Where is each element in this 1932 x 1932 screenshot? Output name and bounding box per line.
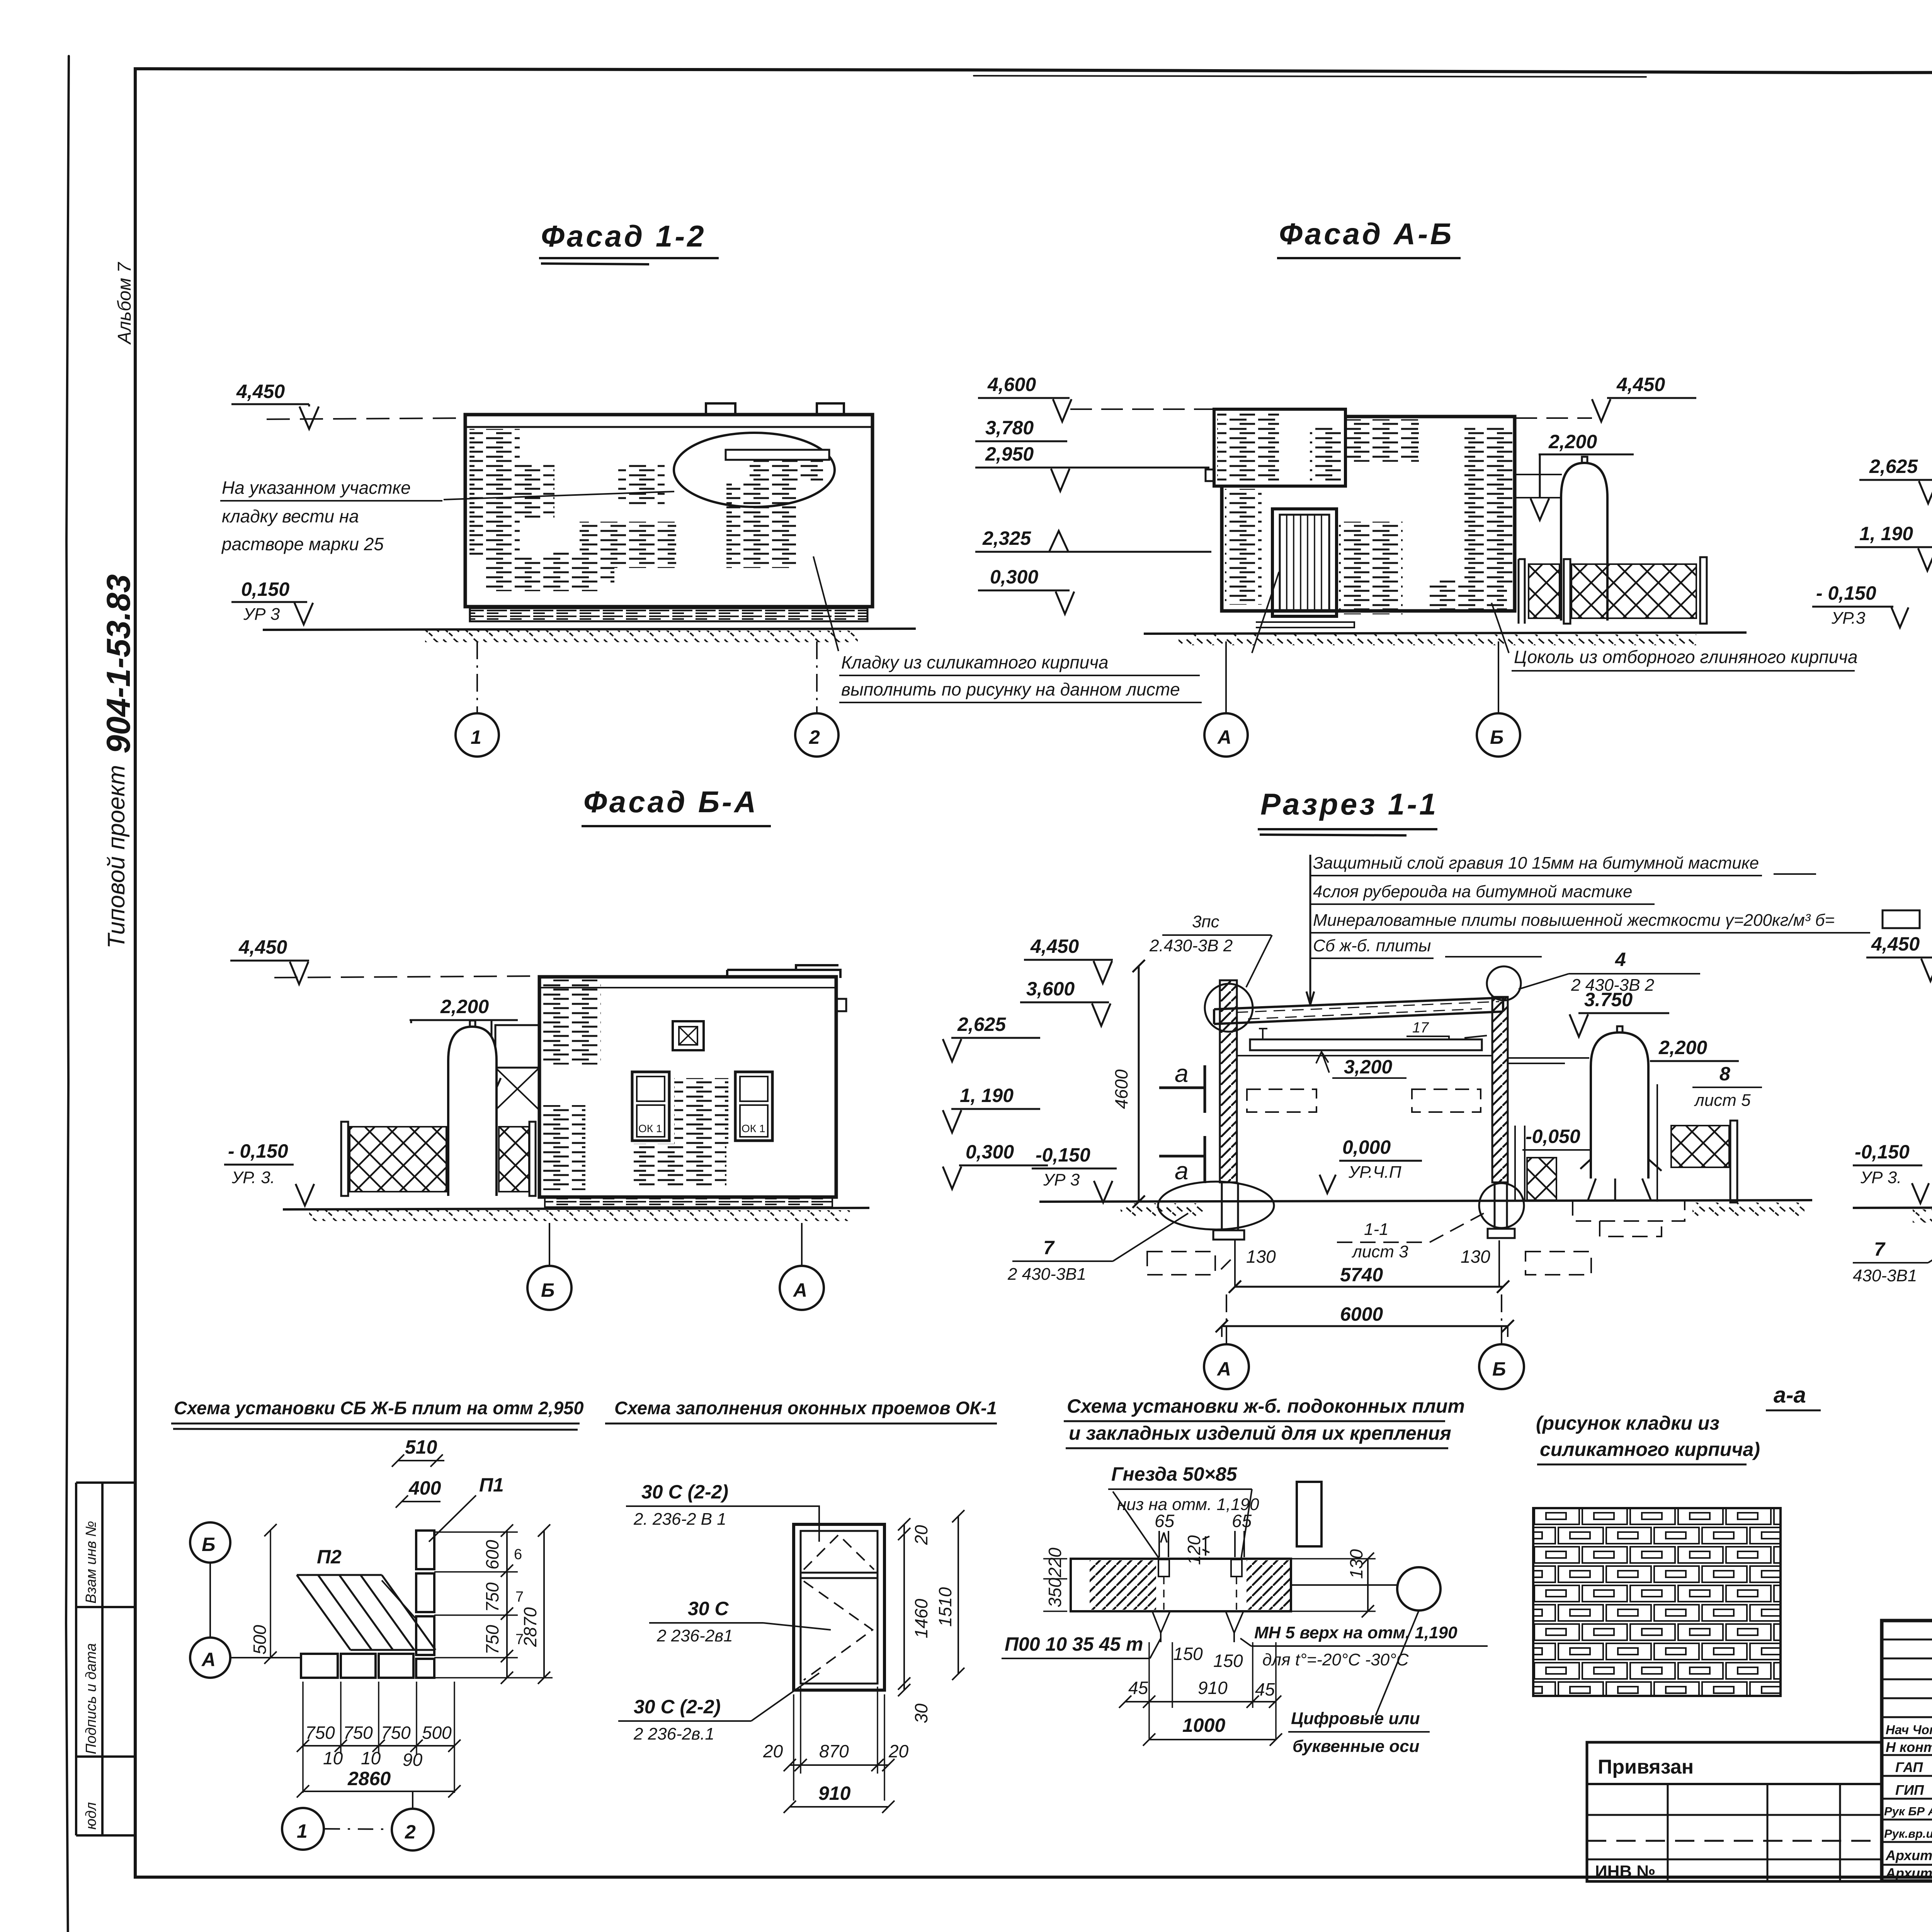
svg-text:2: 2: [405, 1821, 416, 1843]
dim 5740: [1235, 1286, 1503, 1288]
svg-text:МН 5 верх на отм. 1,190: МН 5 верх на отм. 1,190: [1254, 1623, 1458, 1642]
svg-text:ГАП: ГАП: [1895, 1759, 1923, 1775]
crane beam: [1250, 1039, 1482, 1050]
svg-text:- 0,150: - 0,150: [1816, 582, 1876, 604]
ceiling line: [1237, 1055, 1492, 1056]
fence right: [1656, 1084, 1658, 1202]
soil patches: [1121, 1203, 1206, 1217]
axis circle 1 (scheme): [282, 1808, 324, 1850]
ground line: [1144, 633, 1747, 634]
svg-text:УР. 3.: УР. 3.: [231, 1168, 275, 1187]
plate row horizontal: [301, 1654, 338, 1678]
brick shading between windows: [674, 1078, 728, 1144]
svg-text:65: 65: [1155, 1511, 1175, 1531]
axis circle B: [527, 1266, 571, 1310]
left column below ground: [1222, 1182, 1238, 1230]
margin stamp boxes: [76, 1483, 135, 1835]
roles and names: [1884, 1721, 1932, 1881]
window outer frame: [794, 1524, 884, 1690]
axis line B: [1498, 641, 1499, 713]
svg-text:1, 190: 1, 190: [1859, 523, 1913, 544]
svg-text:600: 600: [482, 1540, 502, 1570]
axis circle Б (scheme): [190, 1522, 230, 1563]
brick shading left wall: [1225, 489, 1262, 605]
svg-text:30 С (2-2): 30 С (2-2): [641, 1481, 728, 1503]
svg-text:Фасад Б-А: Фасад Б-А: [583, 785, 758, 819]
svg-text:УР 3: УР 3: [243, 605, 280, 624]
pipes right of column: [1508, 1058, 1589, 1063]
svg-text:выполнить по рисунку на данном: выполнить по рисунку на данном листе: [841, 679, 1180, 699]
svg-text:(рисунок кладки из: (рисунок кладки из: [1536, 1412, 1719, 1434]
svg-text:и закладных изделий для их кре: и закладных изделий для их крепления: [1069, 1422, 1451, 1444]
brick shading right edge: [1464, 425, 1514, 587]
svg-text:1000: 1000: [1182, 1714, 1225, 1736]
paper left edge: [66, 56, 69, 1932]
bottom dim 20/870/20: [790, 1764, 888, 1766]
svg-text:350: 350: [1045, 1578, 1065, 1607]
svg-text:30 С: 30 С: [688, 1598, 729, 1619]
leader to note: [444, 492, 674, 500]
axis circle 2: [795, 713, 838, 757]
spec leader vertical: [1306, 855, 1314, 1005]
anchor V left: [1152, 1611, 1170, 1642]
svg-text:0,150: 0,150: [241, 578, 289, 600]
svg-text:Кладку из силикатного кирпича: Кладку из силикатного кирпича: [841, 652, 1109, 672]
svg-text:Схема заполнения оконных проем: Схема заполнения оконных проемов ОК-1: [614, 1398, 997, 1418]
dashed footing right: [1526, 1252, 1591, 1275]
left dims 220/350: [1043, 1559, 1067, 1611]
svg-text:10: 10: [323, 1748, 343, 1768]
svg-text:904-1-53.83: 904-1-53.83: [100, 574, 137, 753]
svg-text:430-3В1: 430-3В1: [1853, 1266, 1917, 1285]
right column below ground: [1495, 1182, 1507, 1229]
svg-text:кладку вести на: кладку вести на: [222, 506, 359, 526]
axis circle B: [1479, 1344, 1524, 1389]
svg-text:400: 400: [408, 1477, 441, 1499]
sockets: [1158, 1560, 1169, 1577]
svg-text:4,600: 4,600: [987, 374, 1036, 395]
svg-text:Рук.вр.инж: Рук.вр.инж: [1884, 1827, 1932, 1840]
section mark a (lower): [1159, 1136, 1205, 1183]
overall 1510: [957, 1516, 959, 1674]
plate stack vertical: [416, 1531, 434, 1569]
svg-text:1460: 1460: [911, 1599, 931, 1638]
svg-text:4,450: 4,450: [238, 936, 287, 958]
overall 2870: [543, 1531, 545, 1678]
svg-text:А: А: [1217, 726, 1231, 748]
svg-text:2,200: 2,200: [1548, 431, 1597, 452]
svg-text:2,625: 2,625: [957, 1014, 1006, 1035]
sill plate plan: [1071, 1559, 1291, 1611]
svg-text:500: 500: [422, 1723, 452, 1743]
lintel bar: [726, 450, 829, 460]
svg-text:65: 65: [1232, 1511, 1252, 1531]
axis circle B: [1477, 713, 1520, 757]
brick masonry panel: [1533, 1508, 1781, 1696]
svg-text:4,450: 4,450: [1616, 374, 1665, 395]
axis line B: [1501, 1294, 1502, 1344]
soil patches: [1913, 1209, 1932, 1223]
axis line A: [1225, 641, 1227, 713]
left column (axis A): [1220, 980, 1237, 1182]
svg-text:2,625: 2,625: [1869, 456, 1918, 477]
svg-text:0,300: 0,300: [966, 1141, 1014, 1163]
svg-text:10: 10: [361, 1748, 381, 1768]
svg-text:3пс: 3пс: [1192, 912, 1219, 931]
plinth leader right: [1492, 603, 1509, 653]
svg-text:910: 910: [1198, 1678, 1228, 1698]
dashed opening right: [1412, 1089, 1481, 1112]
svg-text:1-1: 1-1: [1364, 1220, 1389, 1239]
duct near right column: [1515, 1126, 1525, 1202]
svg-text:ОК 1: ОК 1: [638, 1122, 662, 1134]
roof parapet strip right: [727, 965, 840, 978]
svg-text:0,300: 0,300: [990, 566, 1038, 588]
plinth leader left: [1252, 572, 1279, 653]
svg-text:а-а: а-а: [1774, 1383, 1806, 1408]
svg-text:Фасад 1-2: Фасад 1-2: [541, 219, 706, 253]
dashed opening left: [1247, 1089, 1316, 1112]
svg-text:20: 20: [888, 1741, 909, 1761]
svg-text:3.750: 3.750: [1584, 989, 1633, 1010]
svg-text:3,780: 3,780: [985, 417, 1034, 439]
svg-text:Н контр: Н контр: [1886, 1739, 1932, 1755]
svg-text:лист 5: лист 5: [1694, 1091, 1751, 1110]
ground line: [1853, 1206, 1932, 1208]
title block outer: [1882, 1621, 1932, 1881]
anchor V right: [1226, 1611, 1243, 1642]
svg-text:Подпись и дата: Подпись и дата: [83, 1643, 99, 1754]
right dim chain: [506, 1531, 508, 1678]
svg-text:Схема установки ж-б. подоконны: Схема установки ж-б. подоконных плит: [1067, 1395, 1465, 1417]
door: [1272, 509, 1337, 616]
svg-text:Архит.: Архит.: [1885, 1865, 1932, 1881]
svg-text:На указанном участке: На указанном участке: [222, 478, 411, 498]
svg-text:Типовой проект: Типовой проект: [103, 765, 130, 949]
svg-text:5740: 5740: [1340, 1264, 1383, 1286]
svg-text:120: 120: [1184, 1535, 1204, 1565]
svg-text:2: 2: [809, 726, 820, 748]
ground line: [1039, 1200, 1812, 1202]
svg-text:4,450: 4,450: [1871, 933, 1920, 955]
svg-text:750: 750: [343, 1723, 373, 1743]
svg-text:2 430-3В1: 2 430-3В1: [1007, 1265, 1086, 1284]
svg-text:150: 150: [1173, 1644, 1203, 1664]
square vent with X: [673, 1021, 704, 1050]
svg-text:Архит.: Архит.: [1885, 1847, 1932, 1863]
svg-text:2,200: 2,200: [440, 996, 489, 1017]
axis circle А (scheme): [190, 1638, 230, 1678]
svg-text:А: А: [793, 1279, 807, 1301]
svg-text:500: 500: [250, 1625, 270, 1655]
svg-text:растворе марки 25: растворе марки 25: [221, 534, 384, 554]
window 2: [735, 1072, 772, 1141]
window transom: [801, 1573, 878, 1578]
door step: [1256, 622, 1354, 628]
svg-text:Привязан: Привязан: [1598, 1756, 1694, 1778]
svg-text:7: 7: [1874, 1238, 1886, 1260]
svg-text:ОК 1: ОК 1: [742, 1122, 765, 1134]
brick shading on raised block: [1217, 412, 1279, 483]
svg-text:750: 750: [381, 1723, 411, 1743]
axis circle 2 (scheme): [392, 1809, 434, 1850]
svg-text:30: 30: [911, 1703, 931, 1723]
svg-text:2 236-2в1: 2 236-2в1: [656, 1626, 733, 1645]
svg-text:20: 20: [763, 1741, 783, 1761]
axis line 2: [816, 641, 818, 713]
roof parapet blocks: [706, 403, 735, 415]
dim 6000: [1222, 1325, 1508, 1327]
dim 2860: [303, 1791, 454, 1792]
svg-text:2.430-3В 2: 2.430-3В 2: [1149, 936, 1233, 955]
svg-text:2. 236-2 В 1: 2. 236-2 В 1: [633, 1510, 726, 1529]
duct between tank and building: [495, 1025, 539, 1068]
svg-text:150: 150: [1213, 1651, 1243, 1671]
axis circle A: [780, 1266, 824, 1310]
brick shading left top: [543, 980, 601, 1065]
leader to brick note: [813, 556, 838, 651]
axis dash link: [325, 1829, 391, 1829]
svg-text:220: 220: [1045, 1548, 1065, 1578]
svg-text:1, 190: 1, 190: [960, 1085, 1014, 1106]
svg-text:-0,150: -0,150: [1855, 1141, 1910, 1163]
left foot oval callout: [1158, 1182, 1274, 1230]
svg-text:А: А: [201, 1649, 216, 1670]
svg-text:Альбом 7: Альбом 7: [114, 262, 135, 345]
svg-text:0,000: 0,000: [1342, 1136, 1391, 1158]
right column: [1492, 997, 1508, 1182]
axis circle 1: [456, 713, 499, 757]
svg-text:20: 20: [911, 1525, 931, 1545]
svg-text:750: 750: [482, 1625, 502, 1655]
svg-text:для t°=-20°С -30°С: для t°=-20°С -30°С: [1262, 1650, 1409, 1669]
svg-text:Б: Б: [202, 1534, 215, 1555]
axis line 1: [476, 641, 478, 713]
svg-text:7: 7: [1043, 1237, 1055, 1259]
ground line: [283, 1208, 869, 1209]
svg-text:Фасад А-Б: Фасад А-Б: [1279, 217, 1454, 251]
dim 910: [790, 1806, 888, 1808]
right nib: [836, 999, 846, 1011]
svg-text:3,200: 3,200: [1344, 1056, 1392, 1078]
svg-text:750: 750: [482, 1582, 502, 1612]
svg-text:7: 7: [515, 1589, 524, 1605]
tank: [1591, 1032, 1648, 1179]
axis line A: [1226, 1294, 1227, 1344]
svg-text:45: 45: [1128, 1678, 1148, 1698]
svg-text:a: a: [1175, 1060, 1189, 1087]
dashed footing left: [1147, 1252, 1215, 1275]
svg-text:130: 130: [1461, 1247, 1490, 1267]
svg-text:Сб ж-б. плиты: Сб ж-б. плиты: [1313, 936, 1431, 955]
soil hatch band: [425, 631, 858, 642]
svg-text:Цоколь из отборного глиняного: Цоколь из отборного глиняного кирпича: [1514, 647, 1858, 667]
svg-text:УР 3: УР 3: [1043, 1170, 1080, 1189]
svg-text:П2: П2: [317, 1546, 342, 1568]
svg-text:910: 910: [818, 1782, 851, 1804]
svg-text:УР.Ч.П: УР.Ч.П: [1348, 1163, 1401, 1182]
axis line B: [549, 1223, 550, 1266]
svg-text:8: 8: [1719, 1063, 1730, 1085]
fence posts and crosshatch panels: [1519, 559, 1525, 624]
svg-text:Схема установки СБ Ж-Б плит на: Схема установки СБ Ж-Б плит на отм 2,950: [174, 1398, 584, 1418]
svg-text:17: 17: [1412, 1020, 1429, 1036]
main building outline: [1222, 417, 1515, 611]
brick shading around door: [1345, 419, 1419, 462]
svg-text:2,200: 2,200: [1658, 1037, 1707, 1058]
svg-text:П00 10 35 45 т: П00 10 35 45 т: [1005, 1633, 1143, 1655]
section mark a (upper): [1159, 1065, 1205, 1113]
svg-text:-0,050: -0,050: [1526, 1126, 1580, 1147]
tank foundation: [1573, 1200, 1685, 1236]
svg-text:УР.3: УР.3: [1831, 609, 1866, 628]
upper-right small rect: [1297, 1482, 1321, 1546]
svg-text:ИНВ №: ИНВ №: [1595, 1862, 1655, 1881]
vertical dim 4600: [1138, 966, 1140, 1202]
axis circle A: [1204, 713, 1248, 757]
svg-text:ГИП: ГИП: [1895, 1782, 1924, 1798]
svg-text:силикатного кирпича): силикатного кирпича): [1540, 1439, 1760, 1460]
svg-text:Защитный слой гравия 10 15мм н: Защитный слой гравия 10 15мм на битумной…: [1313, 854, 1759, 872]
svg-text:a: a: [1175, 1157, 1189, 1185]
svg-text:лист 3: лист 3: [1351, 1242, 1408, 1261]
svg-text:Рук БР АРХ.: Рук БР АРХ.: [1884, 1804, 1932, 1818]
П2 slanted bundle: [297, 1575, 435, 1650]
axis circle (empty): [1397, 1567, 1440, 1611]
svg-text:1510: 1510: [935, 1587, 955, 1627]
svg-text:130: 130: [1246, 1247, 1276, 1267]
svg-text:6: 6: [514, 1546, 522, 1563]
svg-text:4слоя рубероида на битумной ма: 4слоя рубероида на битумной мастике: [1313, 882, 1633, 901]
svg-text:4,450: 4,450: [236, 381, 285, 402]
extension to axis circle: [1291, 1584, 1397, 1586]
window 1: [632, 1072, 669, 1141]
svg-text:2860: 2860: [347, 1768, 391, 1789]
svg-text:буквенные оси: буквенные оси: [1293, 1737, 1420, 1756]
plinth band: [470, 608, 867, 621]
svg-text:30 С (2-2): 30 С (2-2): [634, 1696, 721, 1718]
svg-text:750: 750: [305, 1723, 335, 1743]
lintel callout oval: [674, 433, 835, 507]
left table rows: [1882, 1639, 1932, 1865]
svg-text:2 236-2в.1: 2 236-2в.1: [633, 1725, 714, 1743]
ground line: [263, 629, 916, 630]
tank (vessel): [1561, 463, 1607, 621]
svg-text:-0,150: -0,150: [1036, 1144, 1090, 1166]
right dim 20/1460/30: [903, 1524, 905, 1690]
svg-text:Взам инв №: Взам инв №: [83, 1521, 99, 1604]
funnel leaders to sockets: [1113, 1489, 1252, 1559]
svg-text:90: 90: [403, 1750, 423, 1770]
svg-text:Б: Б: [541, 1279, 554, 1301]
axis line A: [801, 1223, 803, 1266]
tank: [448, 1027, 497, 1196]
svg-text:Б: Б: [1492, 1358, 1506, 1380]
svg-text:6000: 6000: [1340, 1303, 1383, 1325]
svg-text:510: 510: [405, 1436, 437, 1458]
lower sash opening symbol: [804, 1581, 872, 1680]
Privyazan box: [1587, 1742, 1882, 1881]
right column (axis B) top circle: [1487, 966, 1521, 1000]
svg-text:4,450: 4,450: [1030, 935, 1079, 957]
svg-text:- 0,150: - 0,150: [228, 1140, 288, 1162]
upper sash opening symbol: [804, 1535, 874, 1570]
plinth band: [545, 1197, 832, 1207]
brick shading patches: [469, 429, 520, 556]
svg-text:2,950: 2,950: [985, 443, 1034, 465]
small nib left: [1206, 469, 1214, 481]
svg-text:П1: П1: [479, 1474, 504, 1496]
bottom dim chain 750/750/750/500: [303, 1682, 454, 1793]
raised roof block: [1214, 409, 1345, 486]
svg-text:2,325: 2,325: [982, 527, 1031, 549]
svg-text:Нач Чотд: Нач Чотд: [1886, 1723, 1932, 1737]
svg-text:Цифровые или: Цифровые или: [1291, 1709, 1420, 1728]
svg-text:Разрез 1-1: Разрез 1-1: [1260, 787, 1438, 821]
top circle callout left: [1205, 984, 1253, 1032]
svg-text:А: А: [1216, 1358, 1231, 1380]
svg-text:3,600: 3,600: [1026, 978, 1075, 1000]
svg-text:Минераловатные плиты повышенно: Минераловатные плиты повышенной жесткост…: [1313, 911, 1835, 930]
tank legs: [1580, 1159, 1662, 1200]
roof slab sloping: [1214, 998, 1503, 1024]
building outline: [465, 415, 872, 607]
axis link line: [209, 1563, 211, 1638]
svg-text:4600: 4600: [1111, 1069, 1131, 1109]
svg-text:юдл: юдл: [83, 1802, 99, 1830]
axis circle A: [1204, 1344, 1249, 1389]
svg-text:1: 1: [297, 1820, 308, 1842]
svg-text:УР 3.: УР 3.: [1860, 1168, 1901, 1187]
svg-text:4: 4: [1615, 949, 1626, 970]
fence left: [341, 1122, 348, 1196]
axis А extension to plates: [230, 1657, 301, 1658]
building outline: [539, 977, 836, 1197]
svg-text:Гнезда 50×85: Гнезда 50×85: [1111, 1463, 1238, 1485]
svg-text:1: 1: [471, 726, 481, 748]
svg-text:Б: Б: [1490, 726, 1503, 748]
svg-text:870: 870: [819, 1741, 849, 1761]
svg-text:2870: 2870: [520, 1607, 540, 1647]
